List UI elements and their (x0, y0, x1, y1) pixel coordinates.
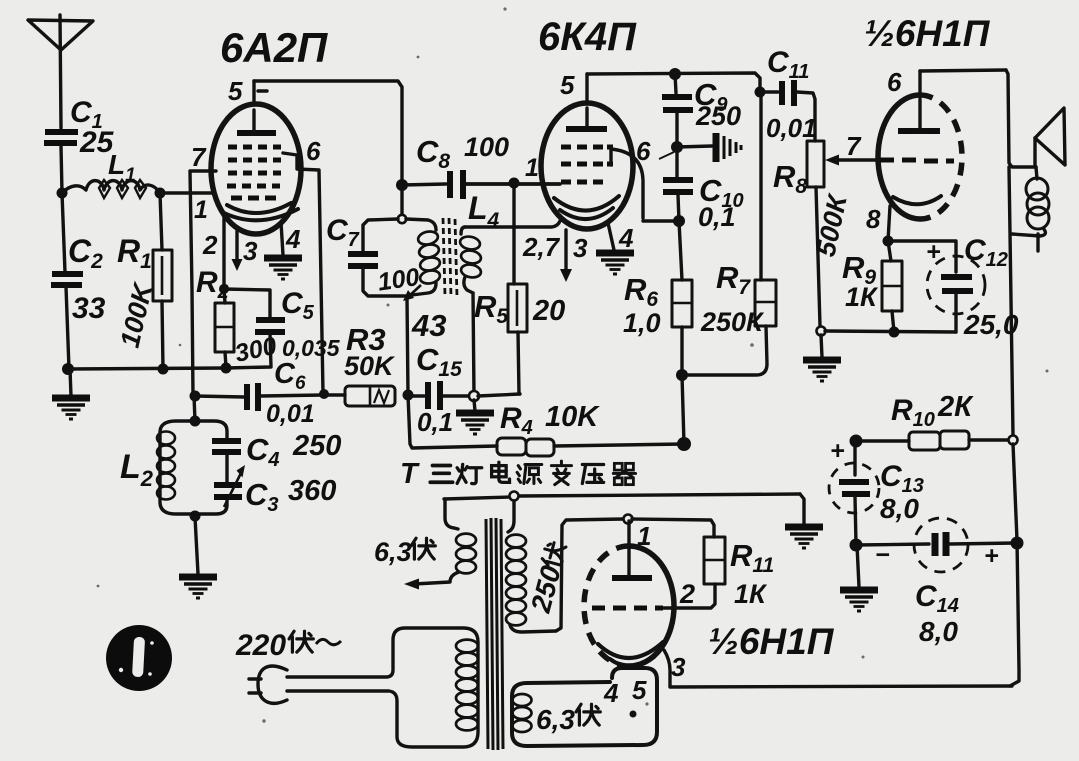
svg-text:1: 1 (637, 521, 651, 551)
cathode arcs U2 (554, 196, 619, 211)
electrolytic C12 25,0 (888, 234, 1019, 340)
node pin8/R9/C12 (883, 236, 894, 247)
wire circle to ground (821, 335, 822, 357)
ground bus under C2/R1 (62, 363, 226, 396)
wire C13 to ground (857, 545, 859, 587)
tube U2 6K4P envelope (541, 103, 633, 229)
svg-text:0,1: 0,1 (698, 202, 736, 232)
capacitor C11 0,01 (760, 46, 817, 143)
svg-text:8,0: 8,0 (880, 493, 919, 524)
capacitor C10 0,1 (663, 150, 744, 232)
svg-text:43: 43 (411, 308, 446, 343)
capacitor C1 (44, 96, 115, 159)
pin 5 wire U2 (560, 70, 760, 103)
wire anode node down to IF transformer (400, 185, 403, 214)
svg-text:5: 5 (228, 76, 243, 106)
transformer top wire (444, 494, 804, 524)
svg-text:1К: 1К (845, 282, 879, 312)
svg-text:8: 8 (866, 204, 881, 234)
svg-text:2,7: 2,7 (522, 232, 561, 262)
node R2 bottom (221, 363, 232, 374)
svg-text:8,0: 8,0 (919, 616, 958, 647)
grid dashed U4 (592, 606, 663, 611)
node C13 top (850, 435, 863, 448)
resistor R5 20 (474, 184, 565, 394)
svg-text:250: 250 (695, 101, 741, 131)
svg-text:0,01: 0,01 (766, 113, 817, 143)
svg-text:1: 1 (525, 154, 539, 182)
resistor R2 300 (196, 266, 279, 368)
primary winding 220V box (287, 628, 478, 747)
ground (transformer top) (785, 527, 823, 548)
node C14 right (1011, 537, 1024, 550)
ground (pin 4 U1) (264, 258, 302, 279)
capacitor C9 250 (662, 74, 741, 147)
node rectifier anode open circle (624, 515, 633, 524)
right rail down (1009, 167, 1013, 435)
svg-text:6К4П: 6К4П (538, 15, 637, 59)
svg-text:360: 360 (288, 475, 336, 507)
pin 3 wire U4 (664, 650, 686, 686)
pin 4 wire U2 (608, 223, 634, 253)
wire L4 top to cathode 6K4P (465, 221, 560, 227)
bottom bus (670, 686, 1012, 687)
wiper arrow R8 (825, 131, 878, 166)
ground (C13) (840, 590, 878, 611)
node HV winding open circle (510, 492, 519, 501)
label 250V rotated (525, 540, 573, 617)
svg-text:33: 33 (72, 292, 106, 325)
wire C1 to node (61, 146, 62, 193)
wire L1 to tube grid (160, 191, 214, 194)
speaker horn (1035, 108, 1065, 167)
tube U3 6N1P envelope half-dashed (878, 95, 962, 219)
svg-text:6,3: 6,3 (536, 704, 575, 735)
pin 7 grid box (190, 142, 216, 396)
mains plug (249, 666, 287, 703)
svg-text:−: − (875, 541, 890, 569)
label 6,3V mid (374, 537, 435, 567)
wire top right to speaker (1006, 70, 1036, 167)
resistor R9 1K (842, 241, 902, 332)
node pin1 6K4P (509, 178, 520, 189)
tuning arrow IF (403, 285, 421, 301)
wire AVC down to R4 (408, 395, 497, 448)
svg-text:1К: 1К (734, 579, 768, 609)
ground (L2) (179, 577, 217, 598)
stray tick (659, 152, 674, 159)
anode bar U2 (566, 126, 607, 132)
chassis shield symbol (677, 133, 741, 162)
svg-text:100: 100 (464, 132, 509, 162)
right rail lower (1010, 444, 1019, 686)
inductor L1 (62, 149, 160, 198)
node B+ bus big (677, 437, 691, 451)
svg-text:2: 2 (202, 230, 218, 260)
svg-text:250: 250 (292, 430, 341, 462)
pin 5 wire (anode top) (228, 76, 402, 185)
tube U4 1/2 6N1P rectifier envelope (584, 546, 674, 666)
grid rows U2 (561, 147, 613, 182)
wire node to R5 bottom (478, 394, 520, 396)
wire anode node to R11 (632, 519, 714, 537)
resistor R7 250K (688, 92, 776, 375)
svg-text:6,3: 6,3 (374, 537, 412, 567)
svg-text:7: 7 (846, 131, 862, 161)
tube U1 6A2P envelope (211, 104, 301, 234)
svg-text:4: 4 (603, 678, 619, 708)
svg-text:T: T (400, 458, 420, 490)
anode bar U4 (612, 575, 652, 581)
node R10 right open circle (1009, 436, 1018, 445)
svg-text:+: + (926, 238, 941, 266)
node C15 right / ground tap (469, 391, 479, 401)
node R8 bottom open circle (817, 327, 826, 336)
node C11 branch (755, 87, 766, 98)
pin 6 bracket and wire down (283, 136, 323, 393)
node C6 left (190, 391, 201, 402)
node L1 right (155, 188, 166, 199)
svg-text:20: 20 (532, 295, 565, 327)
output coil (1012, 167, 1049, 251)
svg-text:+: + (984, 542, 999, 570)
inductor L2 loops (120, 432, 175, 500)
electrolytic C13 8,0 (829, 437, 924, 544)
node pin2/R2/C5 (219, 284, 229, 294)
grid rows U1 (227, 147, 281, 198)
resistor R10 2K (856, 391, 1008, 450)
svg-text:6А2П: 6А2П (220, 24, 328, 71)
tank circuit L2/C4/C3 (160, 396, 227, 522)
node C10 bottom / pin6 (673, 215, 685, 227)
grid dashed U3 (880, 160, 954, 161)
resistor R11 1K (662, 537, 774, 609)
svg-text:6: 6 (887, 67, 902, 97)
svg-text:0,01: 0,01 (266, 400, 315, 428)
svg-text:½6Н1П: ½6Н1П (864, 13, 991, 54)
svg-text:7: 7 (191, 142, 207, 172)
capacitor C4 250 (212, 430, 341, 471)
pin 3 arrow U2 (560, 230, 588, 282)
capacitor C6 0,01 (195, 358, 324, 428)
node C8 branch (396, 179, 408, 191)
node C13 bottom (850, 539, 863, 552)
svg-text:5: 5 (560, 70, 575, 100)
svg-text:50K: 50K (344, 351, 396, 381)
svg-text:10K: 10K (545, 401, 600, 433)
svg-text:6: 6 (636, 136, 651, 166)
heater winding 6,3V top-left (414, 499, 476, 584)
HV winding 250V (506, 501, 556, 632)
wire node down to B+ bus (682, 375, 684, 444)
IF transformer L3 primary coil (406, 219, 441, 295)
node R6/R7 (676, 369, 688, 381)
cathode gnd bus R8/R9/C12 (825, 327, 956, 338)
svg-text:2: 2 (679, 579, 695, 609)
potentiometer R8 500K (773, 141, 853, 326)
svg-text:250К: 250К (700, 307, 765, 337)
ground (R8) (803, 360, 841, 381)
svg-text:4: 4 (285, 224, 301, 254)
label T power transformer (400, 458, 636, 490)
svg-text:3: 3 (573, 233, 588, 263)
svg-text:4: 4 (618, 223, 634, 253)
pin 4 wire + label (281, 222, 301, 255)
capacitor C5 0,035 (224, 287, 341, 368)
svg-text:0,1: 0,1 (417, 407, 453, 437)
wire L4 bottom down to ground node (473, 293, 474, 395)
anode bar U1 (237, 130, 276, 136)
capacitor C2 (51, 193, 106, 369)
pin 6 bracket U2 (611, 136, 679, 221)
cathode arc U3 (893, 196, 941, 204)
svg-text:½6Н1П: ½6Н1П (708, 621, 835, 662)
ground (pin 4 U2) (596, 253, 634, 274)
arrow 6,3V left (404, 579, 419, 590)
svg-text:6: 6 (306, 136, 321, 166)
resistor R6 1,0 (623, 221, 692, 375)
ground (C15 node) (474, 400, 475, 411)
wire bus to R3 (324, 393, 345, 396)
wire IF bottom to AVC bus (407, 298, 408, 395)
svg-text:1,0: 1,0 (623, 308, 661, 338)
wire HV to rectifier anode (556, 519, 624, 631)
node open circle IF top (398, 215, 406, 223)
wire L2 bottom to ground (195, 517, 198, 574)
pin 8 wire U3 (866, 204, 890, 241)
svg-text:1: 1 (194, 196, 208, 224)
IF transformer L4 secondary coil (459, 190, 499, 293)
pin 3 arrow (cathode) (232, 231, 259, 271)
node top wire / C9 (669, 68, 681, 80)
pin 1 wire U2 (466, 154, 560, 184)
svg-text:5: 5 (632, 675, 647, 705)
resistor R4 10K (497, 401, 684, 456)
svg-text:2К: 2К (937, 391, 974, 423)
svg-text:+: + (830, 437, 845, 465)
node antenna/L1 (57, 188, 68, 199)
cathode arcs U1 (227, 203, 291, 213)
node R3 right (403, 390, 414, 401)
capacitor C8 100 (402, 132, 560, 199)
ground (C2) (52, 398, 90, 419)
electrolytic C14 8,0 (856, 518, 1016, 647)
resistor R3 50K (344, 322, 396, 406)
variable capacitor C3 360 (214, 465, 336, 516)
dial knob (106, 625, 172, 691)
resistor R1 100K (115, 193, 172, 369)
transformer core (486, 518, 503, 750)
antenna (28, 15, 93, 128)
IF transformer core dashes (443, 218, 457, 297)
node pin6 line joins bus (319, 389, 329, 399)
capacitor C7 100 (326, 214, 421, 297)
capacitor C15 0,1 (408, 342, 474, 437)
svg-text:3: 3 (671, 652, 686, 682)
svg-text:3: 3 (243, 236, 258, 266)
cathode arcs U4 (598, 642, 663, 658)
pin 2 wire (202, 214, 224, 289)
node C9/C10/shield (671, 141, 683, 153)
label 220V (235, 629, 341, 662)
anode bar U3 (898, 128, 940, 134)
pin 6 wire U3 (887, 67, 1006, 97)
heater winding 6,3V bottom box (512, 668, 657, 746)
svg-text:220: 220 (235, 629, 286, 662)
